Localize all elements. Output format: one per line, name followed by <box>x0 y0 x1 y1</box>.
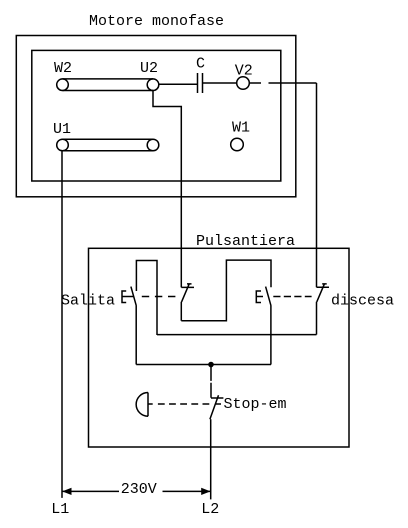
svg-text:W1: W1 <box>232 120 250 137</box>
svg-text:Pulsantiera: Pulsantiera <box>196 233 295 250</box>
svg-text:W2: W2 <box>54 60 72 77</box>
svg-text:U2: U2 <box>140 60 158 77</box>
svg-text:L1: L1 <box>51 501 69 518</box>
svg-text:U1: U1 <box>53 121 71 138</box>
svg-text:C: C <box>196 56 205 73</box>
svg-text:Motore monofase: Motore monofase <box>89 13 224 30</box>
svg-text:Stop-em: Stop-em <box>224 396 287 413</box>
svg-text:discesa: discesa <box>331 293 394 310</box>
svg-text:V2: V2 <box>235 63 253 80</box>
svg-text:Salita: Salita <box>61 293 115 310</box>
svg-text:230V: 230V <box>121 481 157 498</box>
svg-text:L2: L2 <box>201 501 219 518</box>
